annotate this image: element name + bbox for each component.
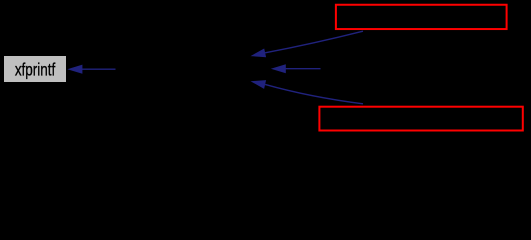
node truncated bottom-right (red border): [319, 107, 522, 131]
edge middle-right->center (wire + arrowhead): [271, 64, 321, 73]
edge top-right->center (wire + arrowhead): [251, 31, 364, 57]
edge center->xfprintf (wire + arrowhead): [67, 65, 115, 74]
edge bottom-right->center (wire + arrowhead): [251, 80, 364, 104]
node center (invisible black node): [116, 56, 271, 82]
node xfprintf (current function, grey box): [4, 56, 66, 82]
svg-text:xfprintf: xfprintf: [15, 61, 56, 80]
node truncated top-right (red border): [336, 5, 507, 29]
